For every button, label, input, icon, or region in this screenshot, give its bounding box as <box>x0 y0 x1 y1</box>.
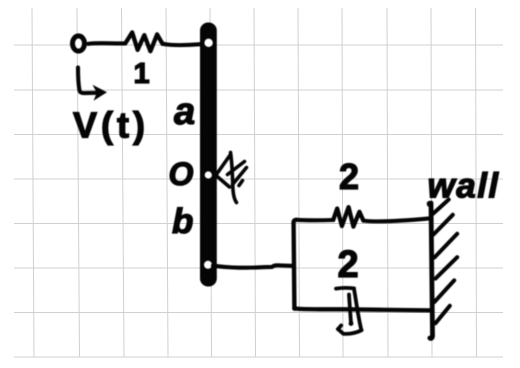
svg-text:wall: wall <box>428 167 500 206</box>
branch vertical wire <box>294 220 297 309</box>
node bottom white dot <box>204 261 212 269</box>
svg-text:a: a <box>174 91 195 133</box>
svg-text:V(t): V(t) <box>73 105 145 146</box>
svg-text:2: 2 <box>338 244 359 286</box>
spring 1 <box>125 32 162 51</box>
wire spring 2 to wall <box>363 218 430 221</box>
damper cylinder <box>336 288 362 334</box>
svg-text:1: 1 <box>134 58 150 90</box>
pivot support at O <box>216 153 247 203</box>
damper piston <box>349 295 351 324</box>
spring 2 <box>333 207 363 227</box>
bottom branch wire through damper to wall <box>294 309 431 311</box>
pivot white dot <box>205 171 212 178</box>
wall hatching <box>433 200 457 324</box>
wire input to spring 1 <box>89 41 126 46</box>
top branch wire to spring 2 <box>297 218 334 223</box>
wall line <box>429 203 431 205</box>
wire lever bottom to branch <box>213 265 294 267</box>
lever bar <box>200 23 217 287</box>
node top white dot <box>204 39 212 47</box>
wire spring 1 to lever <box>163 44 202 45</box>
svg-text:O: O <box>169 156 194 192</box>
velocity arrow <box>78 68 96 94</box>
svg-text:2: 2 <box>339 156 359 197</box>
node input circle <box>73 36 85 51</box>
svg-text:b: b <box>172 202 193 241</box>
